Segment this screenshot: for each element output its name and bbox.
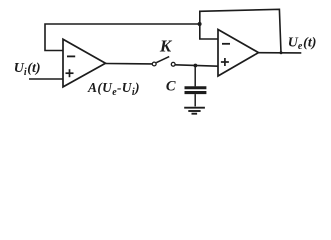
wire capacitor to node [194,66,196,87]
svg-text:K: K [159,36,173,55]
wire U2 feedback loop (output to inverting input) [200,9,281,53]
wire switch to U2 non-inverting input [175,65,218,66]
wire feedback top-left (Ue to U1 inverting input) [45,24,200,51]
wire U2 output [259,52,302,54]
U2 plus sign [221,58,229,66]
junction node feedback/inverting input [198,22,202,26]
capacitor C plates [185,88,207,93]
U2 minus sign [222,43,230,45]
U1 minus sign [67,55,75,57]
switch K blade [156,57,169,63]
svg-text:Ue(t): Ue(t) [288,35,317,52]
wire capacitor to ground [194,94,196,106]
op-amp U2 [218,30,259,77]
junction node capacitor top [194,64,198,68]
svg-text:C: C [166,78,176,94]
U1 plus sign [66,69,74,77]
svg-text:A(Ue-Ui): A(Ue-Ui) [87,80,140,98]
junction node U2 output [280,51,283,54]
wire U1 output to switch [106,63,153,65]
svg-text:Ui(t): Ui(t) [14,61,41,78]
op-amp U1 [63,39,106,87]
switch K left contact [152,62,156,66]
wire U1 non-inverting input from Ui [29,78,63,80]
switch K right contact [171,62,175,66]
ground symbol [184,108,205,114]
